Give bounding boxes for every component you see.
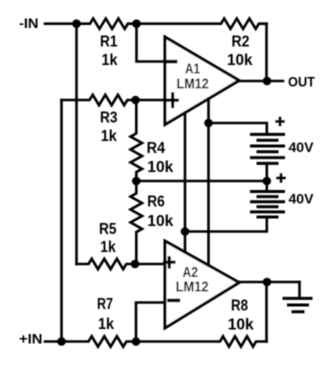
wire A2 plus input [135, 263, 165, 266]
wire A2 output to ground stem [239, 281, 300, 284]
svg-text:10k: 10k [227, 52, 253, 69]
resistor R6 [131, 181, 143, 264]
node junction battery midpoint [263, 177, 272, 186]
label A1 minus input [166, 60, 176, 64]
wire -IN lead to node [45, 22, 77, 25]
svg-text:1k: 1k [101, 128, 117, 145]
node OUT junction [263, 77, 272, 86]
svg-text:R4: R4 [147, 140, 166, 157]
wire battery B1 to midpoint [265, 163, 268, 181]
svg-text:R5: R5 [99, 221, 117, 238]
node junction R3 / R4 / A1 plus input [131, 96, 140, 105]
svg-text:10k: 10k [147, 213, 173, 230]
label battery B1 plus [277, 118, 284, 125]
node junction A2 output / R8 / ground [263, 278, 272, 287]
node junction -IN / R1 / left feed [72, 19, 81, 28]
svg-text:R2: R2 [232, 34, 250, 51]
node junction negative rail / battery bottom [181, 227, 190, 236]
wire battery positive from rail [209, 123, 267, 134]
svg-text:10k: 10k [147, 159, 173, 176]
wire A1 plus input [136, 99, 166, 102]
node junction R5 / R6 / A2 plus input [131, 260, 140, 269]
svg-text:R8: R8 [231, 298, 248, 315]
ground [284, 298, 311, 311]
svg-text:LM12: LM12 [177, 76, 209, 93]
label battery B2 plus [278, 175, 285, 182]
svg-text:40V: 40V [289, 139, 315, 155]
wire A2 inverting input to +IN rail [136, 303, 165, 342]
wire ground stem down [298, 282, 301, 297]
resistor R4 [131, 100, 143, 181]
svg-text:-IN: -IN [19, 15, 39, 31]
svg-text:R7: R7 [97, 296, 113, 313]
wire battery negative to rail [185, 217, 267, 232]
op-amp A2 [165, 241, 239, 328]
svg-text:R1: R1 [100, 34, 118, 51]
battery B2 40V plates [252, 192, 284, 218]
label A2 minus input [169, 299, 178, 303]
op-amp A1 [165, 37, 239, 125]
resistor R7 [62, 336, 137, 346]
svg-text:R3: R3 [100, 110, 118, 127]
wire A1 inverting input from top rail [137, 24, 166, 62]
resistor R2 [137, 19, 267, 29]
svg-text:+IN: +IN [19, 331, 43, 347]
node junction R1 / A1 inverting / R2 [132, 19, 141, 28]
wire positive supply rail A1 to A2 [207, 99, 210, 266]
resistor R3 [62, 95, 136, 105]
svg-text:40V: 40V [289, 191, 315, 207]
svg-text:OUT: OUT [288, 74, 315, 90]
svg-text:R6: R6 [147, 194, 165, 211]
wire A1 output to OUT [239, 80, 283, 83]
wire R8 up to A2 output node [265, 282, 268, 342]
node junction positive rail / battery top [204, 119, 213, 128]
svg-text:1k: 1k [98, 316, 114, 333]
svg-text:10k: 10k [228, 317, 254, 334]
wire left feed -IN node down to R5 row [75, 24, 78, 264]
wire midpoint to battery B2 [265, 181, 268, 192]
resistor R5 [77, 259, 136, 269]
label A2 plus input [165, 258, 174, 267]
node junction R4 / R6 / supply midpoint [132, 177, 141, 186]
wire R3 left corner down to +IN rail [60, 100, 63, 342]
node junction +IN / R3 branch / R7 [57, 337, 66, 346]
wire midpoint to battery junction [136, 180, 266, 183]
wire +IN lead [45, 340, 62, 343]
svg-text:1k: 1k [102, 52, 118, 69]
svg-text:1k: 1k [100, 239, 116, 256]
resistor R8 [136, 336, 267, 346]
wire negative supply rail A1 to A2 [184, 113, 187, 253]
resistor R1 [77, 19, 137, 29]
wire R2 down to OUT node [265, 24, 268, 81]
node junction R7 / A2 inverting / R8 [132, 337, 141, 346]
svg-text:LM12: LM12 [176, 278, 209, 295]
label A1 plus input [168, 94, 178, 107]
battery B1 40V plates [252, 134, 284, 163]
